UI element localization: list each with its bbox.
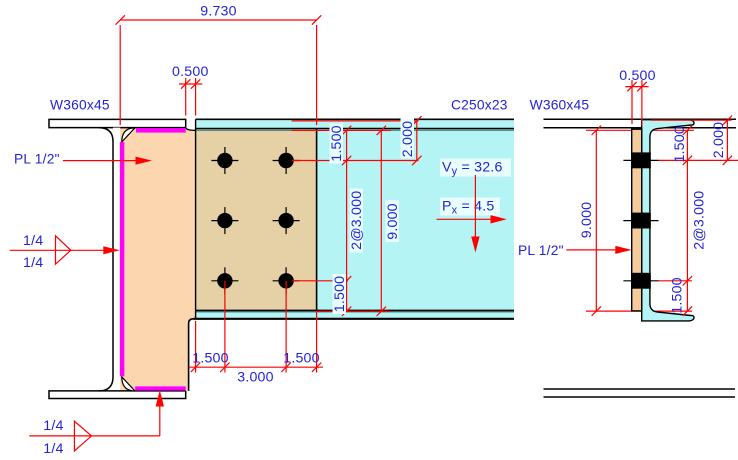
svg-text:2.000: 2.000 <box>400 121 416 158</box>
svg-text:PL 1/2": PL 1/2" <box>518 243 564 258</box>
svg-text:2.000: 2.000 <box>711 122 727 159</box>
channel C250x23 cross-section <box>642 120 694 321</box>
channel bottom flange inner teal line <box>196 311 514 313</box>
extension line channel top right (for 2.000 right) <box>651 119 732 121</box>
svg-text:W360x45: W360x45 <box>50 98 110 113</box>
extension line channel top (for 2.000) <box>292 120 419 122</box>
channel top flange inner line <box>196 127 514 129</box>
bolt B4 (row2 col2) <box>273 207 300 234</box>
extension line bolt row3 <box>292 280 348 282</box>
extension line bolt row1 <box>292 160 419 162</box>
svg-text:1/4: 1/4 <box>43 418 63 434</box>
plate PL 1/2" full height portion <box>120 128 196 391</box>
bolt centerline row2 (right) <box>623 220 658 222</box>
svg-text:1.500: 1.500 <box>329 125 345 162</box>
leader PL 1/2" (right) <box>518 243 632 258</box>
load text Vy = 32.6 <box>440 159 511 178</box>
extension line plate top (right view) <box>586 129 694 131</box>
plate top corner clip wedge <box>122 128 135 142</box>
bolt square row1 <box>631 152 651 168</box>
plate bottom corner clip wedge <box>122 377 135 391</box>
weld symbol 1/4 fillet (bottom flange weld) <box>29 390 164 457</box>
plate PL 1/2" strip (right view) <box>632 129 642 311</box>
svg-text:0.500: 0.500 <box>172 64 209 80</box>
svg-text:1/4: 1/4 <box>23 233 43 249</box>
dimension 9.000 (right) <box>579 126 601 316</box>
dimension 9.000 (main) <box>377 126 401 316</box>
plate right edge <box>316 128 318 310</box>
weld top horizontal (plate to top flange) <box>136 128 186 133</box>
svg-text:1.500: 1.500 <box>332 276 348 313</box>
channel bottom flange inner line <box>196 309 514 311</box>
svg-text:1.500: 1.500 <box>192 351 229 367</box>
W360x45 top flange <box>49 119 186 127</box>
dimension 9.730 <box>116 4 322 126</box>
load text Px = 4.5 <box>440 198 500 217</box>
svg-text:1/4: 1/4 <box>23 255 43 271</box>
bolt centerline row3 (right) <box>623 280 658 282</box>
svg-text:Px = 4.5: Px = 4.5 <box>442 199 494 217</box>
channel top outer line <box>196 118 514 120</box>
W bottom flange edge lines (right view) <box>544 389 736 397</box>
dimension line 1.500 / 3.000 / 1.500 (bottom) <box>189 351 323 386</box>
top flange right end fillet to plate <box>186 128 196 130</box>
bolt B1 (row1 col1) <box>211 147 238 174</box>
svg-text:2@3.000: 2@3.000 <box>349 191 365 250</box>
svg-text:1.500: 1.500 <box>670 277 686 314</box>
extension line row1 (right view) <box>659 159 738 161</box>
svg-text:9.000: 9.000 <box>579 202 595 239</box>
dimension chain 1.500/2@3.000/1.500 (main vertical) <box>329 124 365 317</box>
leader PL 1/2" (main) <box>14 152 152 167</box>
extension line plate bottom (right view) <box>586 310 692 312</box>
svg-text:2@3.000: 2@3.000 <box>692 191 708 250</box>
svg-text:1/4: 1/4 <box>43 441 63 457</box>
bolt square row2 <box>631 213 651 229</box>
svg-text:C250x23: C250x23 <box>451 98 508 113</box>
channel left end edge <box>195 119 197 318</box>
extension line plate top edge (for 1.500/9.000) <box>292 129 391 131</box>
shear arrow Vy (down) <box>471 175 479 253</box>
W top flange edge lines (right view) <box>544 119 737 127</box>
plate tab behind channel web (overlap) <box>196 130 317 311</box>
svg-text:9.730: 9.730 <box>200 4 237 20</box>
svg-text:Vy = 32.6: Vy = 32.6 <box>442 160 503 178</box>
bolt B2 (row1 col2) <box>273 147 300 174</box>
svg-text:0.500: 0.500 <box>619 68 656 84</box>
dimension 2.000 (right) <box>711 116 732 166</box>
dimension 0.500 (main) <box>172 64 209 116</box>
W360x45 web <box>99 128 121 391</box>
svg-text:9.000: 9.000 <box>385 203 401 240</box>
axial arrow Px (right) <box>437 215 507 223</box>
bolt square row3 <box>631 273 651 289</box>
dimension chain 1.500/2@3.000/1.500 (right) <box>670 126 708 316</box>
dimension 0.500 (right) <box>619 68 656 126</box>
extension line row3 (right view) <box>659 280 693 282</box>
svg-text:1.500: 1.500 <box>283 351 320 367</box>
dimension 2.000 (main) <box>400 116 422 165</box>
weld symbol 1/4 fillet (web weld) <box>10 233 120 271</box>
svg-text:W360x45: W360x45 <box>530 98 590 113</box>
bolt B6 (row3 col2) <box>273 267 300 294</box>
svg-text:3.000: 3.000 <box>237 370 274 386</box>
bolt B3 (row2 col1) <box>211 207 238 234</box>
W360x45 bottom flange <box>49 391 186 399</box>
svg-text:PL 1/2": PL 1/2" <box>14 152 60 167</box>
bottom dimension extension lines <box>196 281 317 373</box>
channel top flange inner teal line <box>196 129 514 131</box>
weld bottom horizontal (plate to bottom flange) <box>135 386 186 390</box>
bolt centerline row1 (right) <box>623 159 658 161</box>
weld vertical (plate to web) <box>120 142 124 376</box>
bolt B5 (row3 col1) <box>211 267 238 294</box>
channel bottom outer line <box>193 318 514 320</box>
svg-text:1.500: 1.500 <box>672 126 688 163</box>
plate lower right edge outline <box>189 319 194 391</box>
channel C250x23 side view body <box>196 120 514 320</box>
extension line plate bottom edge <box>317 310 391 312</box>
